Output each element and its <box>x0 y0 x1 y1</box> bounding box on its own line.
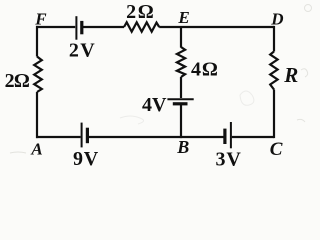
svg-text:2: 2 <box>69 39 79 61</box>
svg-text:A: A <box>30 139 42 158</box>
wire battery 9V to node A <box>36 136 81 138</box>
label 2 ohm (top resistor) <box>126 1 154 23</box>
scan ghost marks (faint) <box>10 5 312 154</box>
wire resistor 4ohm to battery 4V <box>180 77 182 98</box>
wire F to battery 2V <box>36 26 75 28</box>
svg-text:R: R <box>283 63 298 87</box>
svg-text:4: 4 <box>142 94 152 116</box>
wire node E down to resistor 4ohm <box>180 27 182 48</box>
wire D down to resistor R <box>273 26 275 52</box>
resistor R1 2ohm left side <box>34 57 42 93</box>
svg-text:E: E <box>177 8 189 27</box>
svg-text:B: B <box>176 137 189 157</box>
svg-text:2: 2 <box>126 1 136 23</box>
battery V2 9V plates <box>82 123 88 148</box>
label 2 V (battery V1) <box>69 39 95 61</box>
wire C to battery 3V <box>232 136 274 138</box>
label 3 V (battery V3) <box>216 148 242 170</box>
battery V4 4V plates <box>167 99 193 104</box>
wire resistor to node E <box>159 26 181 28</box>
label 4 ohm (middle resistor) <box>191 58 218 80</box>
label 9 V (battery V2) <box>73 148 99 170</box>
battery V1 2V plates <box>76 16 81 40</box>
battery V3 3V plates <box>225 122 231 148</box>
svg-text:3: 3 <box>216 148 226 170</box>
label 4 V (battery V4) <box>142 94 167 116</box>
wire A up to resistor 2ohm left <box>36 92 38 138</box>
svg-text:V: V <box>226 148 241 170</box>
resistor R3 4ohm middle <box>177 47 185 77</box>
label 2 ohm (left resistor) <box>5 70 30 92</box>
svg-text:9: 9 <box>73 148 83 170</box>
svg-text:V: V <box>80 39 95 61</box>
svg-text:V: V <box>152 94 167 116</box>
svg-text:4: 4 <box>191 58 201 80</box>
svg-text:Ω: Ω <box>14 70 30 92</box>
wire node B to battery 9V <box>88 136 181 138</box>
resistor R2 2ohm top <box>124 22 159 31</box>
wire battery 3V to node B <box>181 136 224 138</box>
svg-text:C: C <box>270 139 283 160</box>
resistor R right side <box>270 52 277 90</box>
wire resistor R to node C <box>273 90 275 139</box>
wire battery 2V to resistor 2ohm top <box>83 26 124 28</box>
wire node E to node D <box>181 26 274 28</box>
wire resistor 2ohm left to node F <box>36 26 38 57</box>
svg-text:F: F <box>34 10 47 29</box>
svg-text:D: D <box>270 9 283 28</box>
svg-text:Ω: Ω <box>202 58 218 80</box>
wire battery 4V to node B <box>180 105 182 138</box>
svg-text:V: V <box>84 148 99 170</box>
svg-text:Ω: Ω <box>138 1 154 23</box>
